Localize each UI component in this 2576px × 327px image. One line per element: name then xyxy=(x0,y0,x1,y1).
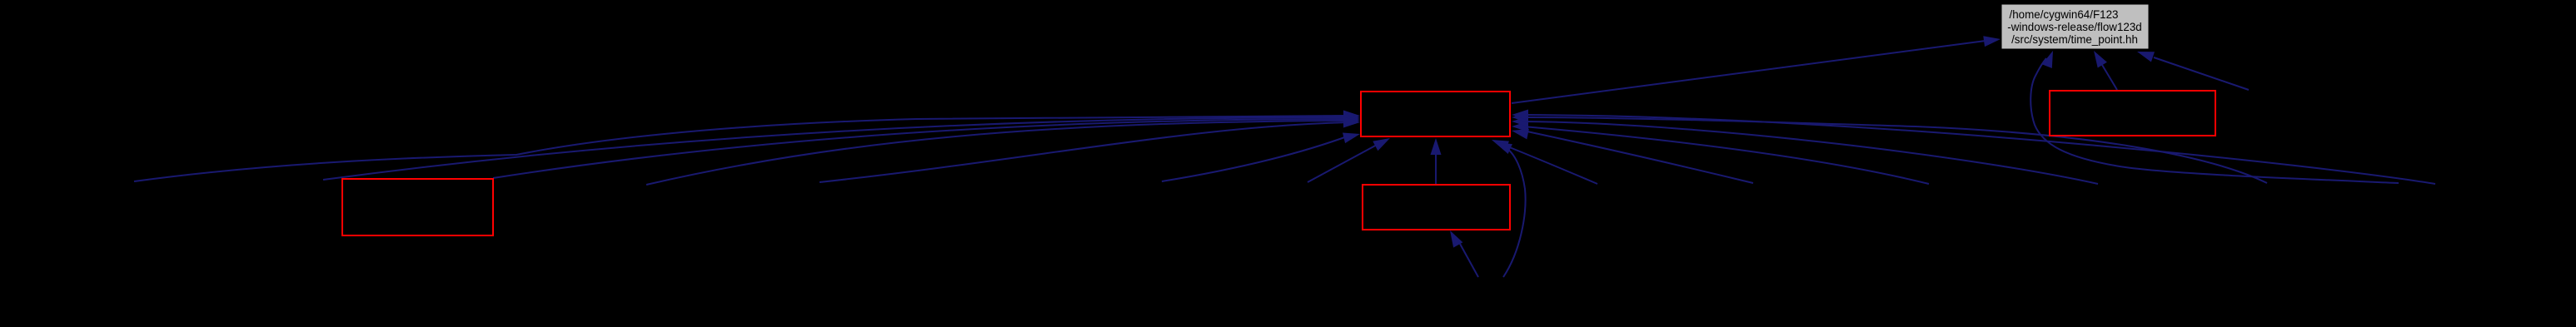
edge n6->A xyxy=(1308,138,1390,182)
node G root: /home/cygwin64/F123-windows-release/flow123d/src/system/time_point.hh xyxy=(2001,4,2149,49)
edge n10->A xyxy=(1512,121,1929,185)
edge n4->A xyxy=(820,117,1360,183)
svg-text:-windows-release/flow123d: -windows-release/flow123d xyxy=(2007,21,2142,33)
node B (red box below A) xyxy=(1363,185,1510,230)
edge n9->A xyxy=(1512,129,1753,183)
edge n13->A xyxy=(1512,110,2435,185)
edge n14->G xyxy=(2137,52,2249,90)
edge R->G xyxy=(2094,51,2117,90)
svg-text:/home/cygwin64/F123: /home/cygwin64/F123 xyxy=(2009,8,2118,21)
edge n15->G xyxy=(2030,51,2399,183)
edge n12->A xyxy=(1512,112,2267,184)
edge L->A xyxy=(493,114,1360,179)
svg-text:/src/system/time_point.hh: /src/system/time_point.hh xyxy=(2011,33,2138,46)
node L (red box, truncated node) xyxy=(342,179,493,235)
node R (red box right) xyxy=(2050,91,2215,136)
edge A->G xyxy=(1512,36,2001,103)
edge n16->B xyxy=(1450,230,1478,277)
edge n3->A xyxy=(646,116,1360,186)
node A (central red box) xyxy=(1361,92,1510,136)
edge n8->A xyxy=(1495,142,1526,277)
edge n2->A xyxy=(323,112,1360,181)
edge n1->A xyxy=(134,111,1360,182)
edge n5->A xyxy=(1162,133,1360,182)
edge n11->A xyxy=(1512,116,2098,185)
edge n7->A xyxy=(1492,140,1597,184)
edge B->A xyxy=(1431,138,1442,184)
